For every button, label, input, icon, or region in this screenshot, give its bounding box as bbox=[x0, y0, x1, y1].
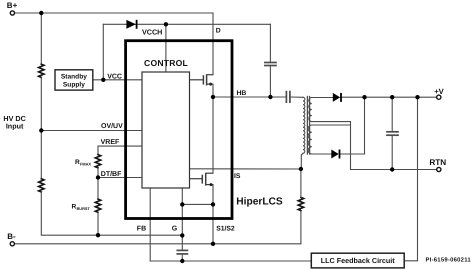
wire left HV rail upper segment bbox=[40, 13, 42, 64]
wire bootstrap cap top lead bbox=[269, 24, 271, 62]
wire VCCH line bbox=[103, 23, 270, 25]
wire primary bottom lead to IS node bbox=[301, 153, 303, 169]
wire left HV rail middle segment bbox=[40, 77, 42, 178]
wire low-side source vertical to S1/S2 and B- bbox=[212, 185, 214, 244]
wire IS line from CONTROL through IC edge to sense node bbox=[190, 168, 301, 170]
svg-text:HiperLCS: HiperLCS bbox=[236, 196, 283, 207]
wire B- rail bbox=[15, 243, 301, 245]
svg-text:FMAX: FMAX bbox=[80, 162, 91, 167]
node dot internal G bbox=[180, 202, 184, 206]
wire DT/BF to CONTROL bbox=[98, 177, 142, 179]
wire secondary top lead to output diode bbox=[312, 97, 333, 99]
wire RBURST bottom lead bbox=[97, 212, 99, 235]
wire bootstrap cap bottom lead to HB bbox=[269, 66, 271, 97]
node dot rail feedback bbox=[415, 95, 419, 99]
svg-text:VCCH: VCCH bbox=[142, 27, 162, 36]
terminal +V bbox=[437, 95, 441, 99]
capacitor bootstrap plates bbox=[265, 62, 276, 64]
terminal B+ bbox=[10, 11, 14, 15]
node dot B+ rail bbox=[39, 11, 43, 15]
wire D riser from B+ rail into IC to high-side drain bbox=[212, 13, 214, 75]
transformer T1 primary winding bbox=[303, 97, 305, 153]
transformer T1 secondary winding lower bbox=[308, 125, 312, 154]
resistor RFMAX bbox=[95, 155, 100, 168]
node dot VCCH pin bbox=[164, 22, 168, 26]
Standby Supply box bbox=[55, 70, 93, 90]
svg-text:Supply: Supply bbox=[63, 82, 85, 89]
wire FB riser from CONTROL bottom bbox=[149, 188, 151, 261]
resistor upper divider on HV rail bbox=[39, 64, 44, 77]
svg-text:VCC: VCC bbox=[107, 73, 122, 80]
terminal RTN bbox=[437, 167, 441, 171]
wire secondary center tap leads bbox=[312, 121, 351, 123]
node dot G ground line bbox=[180, 233, 184, 237]
svg-text:CONTROL: CONTROL bbox=[144, 58, 188, 68]
wire B- rail corner up to sense resistor bbox=[300, 211, 302, 244]
node dot rail lower-diode bbox=[362, 95, 366, 99]
IC HiperLCS U1 outline bbox=[126, 41, 232, 219]
svg-text:D: D bbox=[216, 27, 221, 34]
wire HB from IC to resonant cap bbox=[213, 96, 286, 98]
svg-text:OV/UV: OV/UV bbox=[101, 122, 123, 130]
wire output rail from top diode to +V bbox=[341, 96, 437, 98]
node dot RBURST bottom bbox=[96, 233, 100, 237]
wire feedback riser from output rail to feedback box bbox=[404, 97, 417, 261]
LLC Feedback Circuit box bbox=[311, 253, 404, 268]
wire resonant cap to primary top bbox=[290, 96, 303, 98]
svg-text:BURST: BURST bbox=[77, 206, 91, 211]
transistor Q2 low-side MOSFET bbox=[190, 173, 214, 186]
svg-text:+V: +V bbox=[434, 87, 444, 96]
svg-text:LLC Feedback Circuit: LLC Feedback Circuit bbox=[321, 256, 395, 265]
wire center tap riser to RTN line bbox=[350, 122, 352, 170]
diode D1 VCCH bootstrap bbox=[126, 20, 136, 29]
resistor IS sense bbox=[298, 197, 303, 210]
node dot HB half-bridge bbox=[211, 95, 215, 99]
wire RFMAX top lead bbox=[97, 146, 99, 155]
node dot rail output-cap bbox=[390, 95, 394, 99]
capacitor resonant plates bbox=[285, 92, 287, 103]
capacitor G-FB plates bbox=[177, 249, 187, 251]
svg-text:B+: B+ bbox=[7, 1, 18, 10]
wire G riser from CONTROL bottom through cap to FB line bbox=[181, 188, 183, 250]
svg-text:S1/S2: S1/S2 bbox=[216, 225, 235, 232]
CONTROL block bbox=[142, 72, 190, 188]
wire secondary bottom lead to lower diode bbox=[312, 153, 332, 155]
svg-text:PI-6159-060211: PI-6159-060211 bbox=[426, 256, 472, 263]
wire RBURST top lead bbox=[97, 178, 99, 200]
wire RTN line bbox=[351, 169, 437, 171]
svg-text:HB: HB bbox=[237, 90, 247, 97]
wire lower diode output to riser bbox=[340, 153, 365, 155]
svg-text:B-: B- bbox=[7, 232, 16, 241]
node dot RTN output-cap bbox=[390, 167, 394, 171]
wire output cap bottom lead to RTN bbox=[391, 136, 393, 170]
wire left HV rail lower segment to ground line bbox=[41, 192, 182, 235]
resistor RBURST bbox=[95, 199, 100, 212]
svg-text:DT/BF: DT/BF bbox=[101, 170, 122, 178]
wire B+ top rail bbox=[15, 12, 213, 14]
wire RFMAX bottom lead to DT/BF node bbox=[97, 168, 99, 178]
terminal B- bbox=[10, 242, 14, 246]
wire G cap bottom lead bbox=[181, 254, 183, 261]
node dot FB line cap bbox=[180, 259, 184, 263]
svg-text:IS: IS bbox=[234, 173, 241, 180]
svg-text:Standby: Standby bbox=[61, 74, 87, 81]
svg-text:G: G bbox=[172, 226, 178, 233]
wire OV/UV from rail to CONTROL bbox=[41, 130, 142, 132]
svg-text:Input: Input bbox=[6, 121, 24, 130]
transistor Q1 high-side MOSFET bbox=[190, 74, 214, 85]
wire output cap top lead bbox=[391, 97, 393, 131]
node dot OV/UV bbox=[39, 128, 43, 132]
node dot internal S1/S2 bbox=[211, 202, 215, 206]
svg-text:VREF: VREF bbox=[101, 139, 120, 146]
wire FB line to feedback circuit box bbox=[150, 260, 311, 262]
wire low-side drain vertical from HB node bbox=[212, 97, 214, 173]
transformer T1 core bbox=[306, 97, 308, 155]
diode D2 secondary top rectifier bbox=[333, 93, 341, 102]
wire internal ground link G to S1/S2 bbox=[182, 203, 213, 205]
node dot IS sense bbox=[299, 167, 303, 171]
node dot DT/BF bbox=[96, 175, 100, 179]
wire VREF from RFMAX top to CONTROL bbox=[98, 145, 142, 147]
wire sense resistor top lead to IS node bbox=[300, 169, 302, 197]
capacitor output plates bbox=[387, 131, 398, 133]
node dot S1/S2 B- bbox=[211, 242, 215, 246]
diode D3 secondary bottom rectifier bbox=[331, 150, 339, 159]
transformer T1 secondary winding upper bbox=[309, 98, 312, 122]
node dot VCC bbox=[101, 78, 105, 82]
node dot bootstrap-HB bbox=[268, 95, 272, 99]
wire VCC from standby supply to CONTROL bbox=[93, 79, 142, 81]
wire lower diode riser to output rail bbox=[364, 97, 366, 154]
svg-text:RTN: RTN bbox=[429, 158, 446, 167]
wire VCCH riser into CONTROL top bbox=[165, 24, 167, 72]
wire VCC riser to VCCH diode line bbox=[102, 24, 104, 80]
svg-text:FB: FB bbox=[137, 226, 146, 233]
wire high-side drain vertical to HB node bbox=[212, 84, 214, 97]
resistor lower divider on HV rail bbox=[39, 179, 44, 192]
